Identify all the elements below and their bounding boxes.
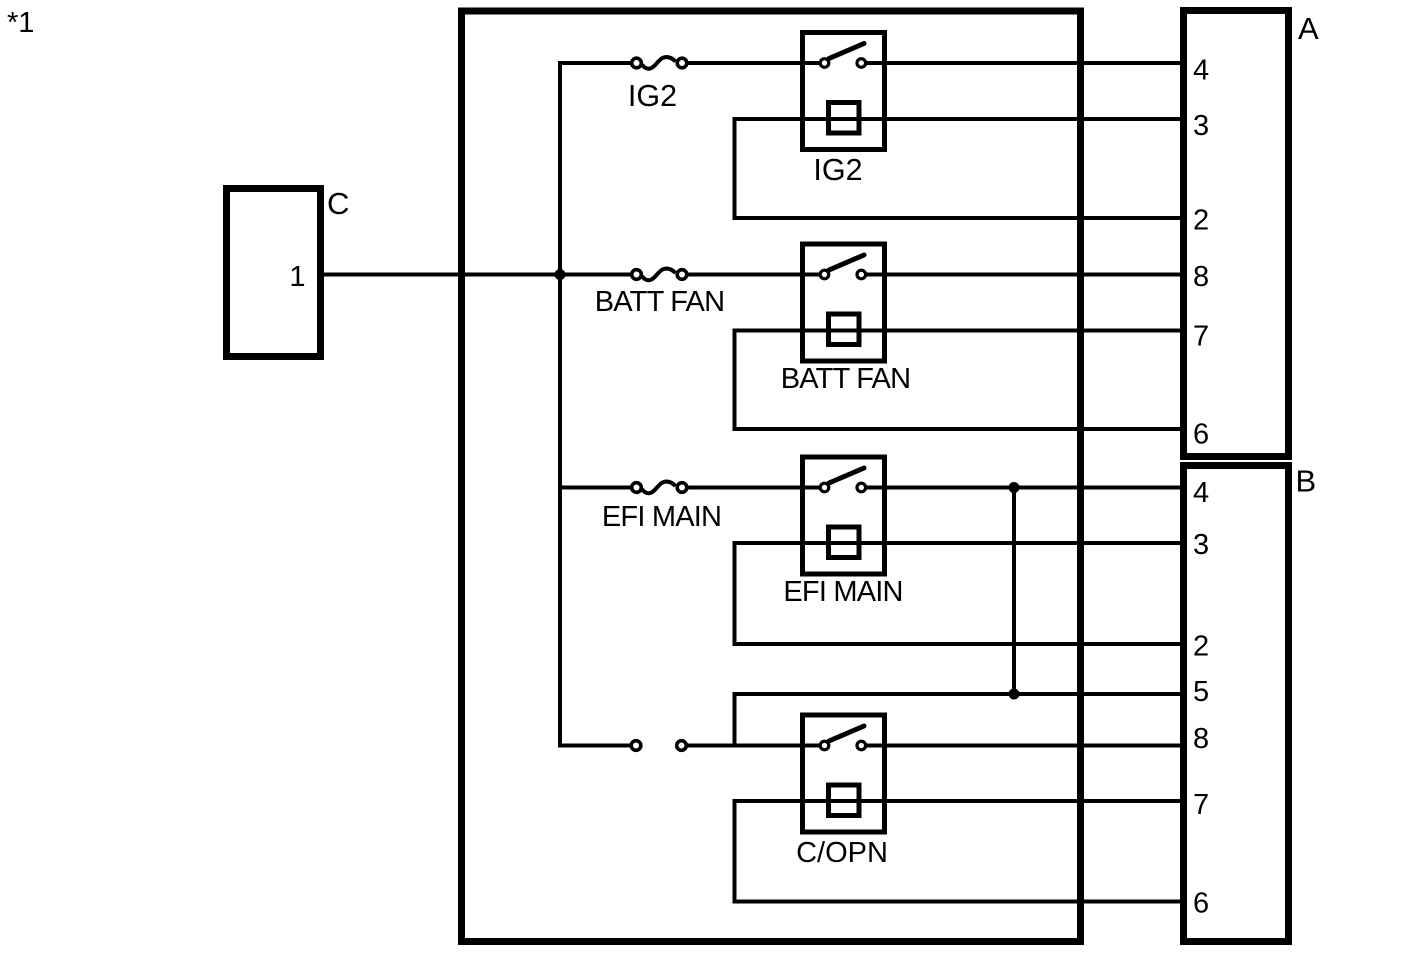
wire C/OPN coil row to pin B7 (735, 799, 1184, 803)
wire EFI MAIN fuse row left (558, 486, 632, 490)
svg-text:6: 6 (1193, 888, 1209, 920)
svg-text:4: 4 (1193, 477, 1209, 509)
wire IG2 coil return to pin A2 (733, 216, 1184, 220)
junction link at pin B4 row (1009, 482, 1020, 493)
wire BATT FAN coil return to pin A6 (733, 427, 1184, 431)
wire EFI MAIN coil row to pin B3 (735, 541, 1184, 545)
wire C/OPN coil return to pin B6 (733, 900, 1184, 904)
wire IG2 fuse to relay (687, 61, 821, 65)
wire C/OPN coil return vertical (733, 799, 737, 902)
svg-text:A: A (1298, 11, 1319, 46)
wire BATT FAN fuse to relay (687, 273, 821, 277)
open contacts C/OPN feed (631, 741, 686, 751)
svg-text:2: 2 (1193, 205, 1209, 237)
wire C/OPN row left (558, 744, 631, 748)
wire B5 drop to C/OPN switch row (733, 692, 737, 746)
wire C1 to feed bus (324, 273, 632, 277)
wire C/OPN contacts to relay (687, 744, 822, 748)
svg-text:8: 8 (1193, 723, 1209, 755)
wire C/OPN relay output to pin B8 (866, 744, 1183, 748)
svg-text:B: B (1296, 464, 1317, 499)
relay BATT FAN (803, 244, 885, 361)
wire BATT FAN fuse row left (558, 273, 632, 277)
svg-text:6: 6 (1193, 419, 1209, 451)
svg-text:EFI MAIN: EFI MAIN (602, 501, 721, 533)
svg-text:C: C (327, 186, 349, 221)
fuse IG2 (632, 57, 687, 69)
wire EFI MAIN coil return vertical (733, 541, 737, 644)
junction link at pin B5 row (1009, 689, 1020, 700)
svg-text:1: 1 (289, 261, 305, 293)
svg-text:5: 5 (1193, 676, 1209, 708)
wire BATT FAN coil row to pin A7 (735, 329, 1184, 333)
wire EFI MAIN coil return to pin B2 (733, 642, 1184, 646)
wire pin B5 row (735, 692, 1184, 696)
svg-text:BATT FAN: BATT FAN (595, 286, 725, 318)
svg-text:BATT FAN: BATT FAN (781, 363, 911, 395)
wire B4 to B5 link vertical (1012, 488, 1016, 695)
main junction block box (462, 11, 1081, 942)
svg-text:8: 8 (1193, 261, 1209, 293)
wire BATT FAN coil return vertical (733, 329, 737, 430)
wire IG2 fuse row left (558, 61, 632, 65)
svg-text:C/OPN: C/OPN (796, 837, 888, 869)
relay C/OPN (803, 715, 885, 832)
svg-text:*1: *1 (7, 7, 34, 39)
connector B box (1184, 466, 1289, 942)
svg-text:3: 3 (1193, 529, 1209, 561)
wire feed bus vertical (558, 61, 562, 746)
svg-text:2: 2 (1193, 631, 1209, 663)
wire BATT FAN relay output to pin A8 (866, 273, 1183, 277)
junction feed bus / C1 wire (555, 269, 566, 280)
wire EFI MAIN relay output to pin B4 (866, 486, 1183, 490)
svg-text:IG2: IG2 (813, 153, 862, 187)
wire EFI MAIN fuse to relay (687, 486, 821, 490)
svg-text:7: 7 (1193, 321, 1209, 353)
svg-text:7: 7 (1193, 789, 1209, 821)
fuse BATT FAN (632, 269, 687, 281)
connector C box (227, 189, 321, 357)
svg-text:IG2: IG2 (628, 79, 677, 113)
svg-text:EFI MAIN: EFI MAIN (783, 576, 902, 608)
relay IG2 (803, 33, 885, 150)
fuse EFI MAIN (632, 482, 687, 494)
svg-text:4: 4 (1193, 55, 1209, 87)
wire IG2 relay output to pin A4 (866, 61, 1183, 65)
svg-text:3: 3 (1193, 110, 1209, 142)
connector A box (1184, 11, 1289, 457)
wire IG2 coil return vertical (733, 117, 737, 218)
wire IG2 coil row to pin A3 (735, 117, 1184, 121)
relay EFI MAIN (803, 457, 885, 574)
